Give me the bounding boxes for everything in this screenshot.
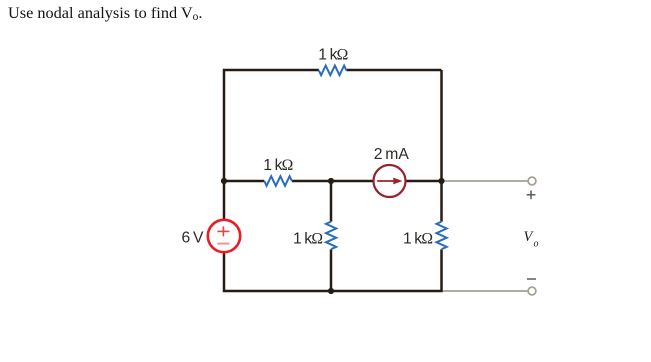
svg-text:1 kΩ: 1 kΩ: [263, 157, 293, 174]
svg-text:1 kΩ: 1 kΩ: [293, 230, 323, 247]
svg-text:1 kΩ: 1 kΩ: [318, 47, 348, 64]
svg-text:6 V: 6 V: [182, 230, 204, 247]
svg-text:1 kΩ: 1 kΩ: [403, 230, 433, 247]
svg-text:o: o: [534, 239, 539, 250]
svg-text:2 mA: 2 mA: [374, 146, 410, 163]
